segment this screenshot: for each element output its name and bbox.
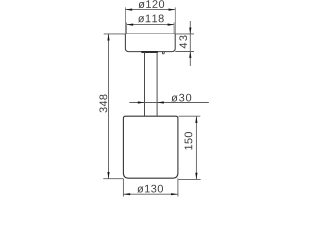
- stem-disc junction thick line: [141, 51, 158, 53]
- extension lines O120: [125, 7, 175, 34]
- small detail mark under disc: [162, 52, 164, 54]
- dimension text O130: [137, 185, 163, 193]
- dimension 348 lower extension line: [103, 178, 123, 180]
- dimension 150 line: [195, 116, 197, 179]
- dimension O30 line: [129, 101, 208, 103]
- dimension 348 line: [107, 34, 109, 179]
- dimension line O120: [126, 9, 176, 11]
- top reference line through disc (348 and 43 upper extension): [104, 33, 194, 35]
- lamp base body: [123, 116, 177, 178]
- dimension O130 extension lines: [123, 179, 177, 197]
- dimension text 150 (rotated): [185, 132, 193, 150]
- stem left line: [144, 52, 146, 116]
- dimension text 43 (rotated): [179, 36, 187, 49]
- lamp top disc body: [125, 34, 175, 52]
- extension lines O118: [127, 22, 175, 34]
- dimension 43 lower extension line: [175, 51, 194, 53]
- dimension O130 line: [124, 193, 178, 195]
- dimension text O120: [138, 0, 164, 8]
- dimension text O30: [171, 94, 191, 102]
- dimension 150 lower extension line: [179, 178, 201, 180]
- dimension text 348 (rotated): [99, 95, 107, 113]
- dimension line O118: [127, 24, 175, 26]
- dimension text O118: [138, 15, 164, 23]
- dimension 150 upper extension line: [179, 115, 201, 117]
- stem right line: [156, 52, 158, 116]
- dimension 43 line: [189, 21, 191, 66]
